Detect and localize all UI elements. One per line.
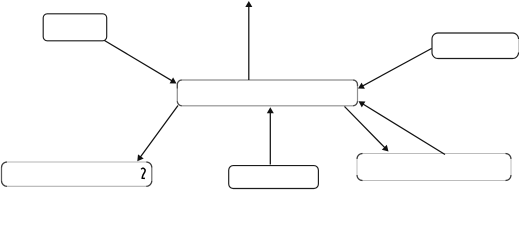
arrow C: top-right box to central [358, 49, 432, 89]
arrow A: top-left box to central [105, 41, 177, 84]
box top-left [43, 14, 106, 41]
arrow D: central to bottom-left box [137, 106, 178, 162]
arrow G: bottom-right box to central [359, 101, 446, 154]
arrow E: bottom-center box up to central [267, 107, 274, 164]
glyph "2" in bottom-left box [141, 168, 145, 178]
arrow B: central up out of frame [245, 1, 252, 80]
box central [177, 80, 357, 106]
box bottom-center [229, 166, 319, 189]
arrow F: central to bottom-right box [345, 107, 389, 152]
box bottom-right [357, 154, 511, 181]
box top-right [432, 33, 519, 59]
box bottom-left [2, 162, 152, 186]
